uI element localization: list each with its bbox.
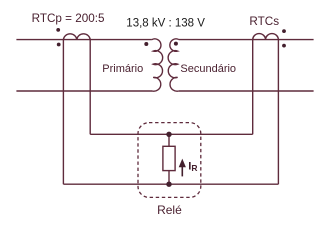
svg-text:13,8 kV : 138 V: 13,8 kV : 138 V (126, 17, 205, 29)
wire bottom-right rail (179, 90, 314, 92)
junction node relay bottom (166, 182, 171, 187)
polarity dot left CT lower (57, 43, 61, 47)
polarity dot secondary winding (174, 42, 178, 46)
CT primary RTCp winding bumps (63, 34, 90, 40)
wire resistor bottom lead (168, 171, 170, 185)
wire right CT lead 1 (to relay top) (252, 40, 254, 135)
current arrow IR (179, 159, 186, 177)
svg-text:RTCs: RTCs (249, 15, 279, 28)
svg-text:Relé: Relé (157, 203, 182, 217)
wire relay top rail (90, 133, 253, 135)
wire top-left rail (16, 39, 152, 41)
polarity dot left CT upper (56, 28, 60, 32)
polarity dot primary winding (144, 42, 148, 46)
polarity dot right CT upper (282, 29, 286, 33)
svg-text:RTCp = 200:5: RTCp = 200:5 (32, 12, 105, 25)
transformer secondary winding (168, 39, 179, 91)
wire top-right rail (179, 39, 314, 41)
wire left CT lead 2 (to relay top) (89, 40, 91, 135)
svg-text:Secundário: Secundário (180, 63, 236, 75)
polarity dot right CT lower (282, 44, 286, 48)
wire right CT lead 2 (to relay bottom) (277, 40, 279, 185)
transformer primary winding (152, 39, 163, 91)
junction node relay top (166, 132, 171, 137)
relay dashed enclosure (138, 123, 201, 198)
resistor (relay operating element) (163, 146, 175, 170)
wire resistor top lead (168, 134, 170, 146)
wire relay bottom rail (63, 183, 278, 185)
wire left CT lead 1 (to relay bottom) (62, 40, 64, 185)
CT secondary RTCs winding bumps (253, 34, 279, 40)
wire bottom-left rail (16, 90, 152, 92)
svg-text:Primário: Primário (102, 63, 143, 75)
svg-text:R: R (191, 163, 197, 173)
